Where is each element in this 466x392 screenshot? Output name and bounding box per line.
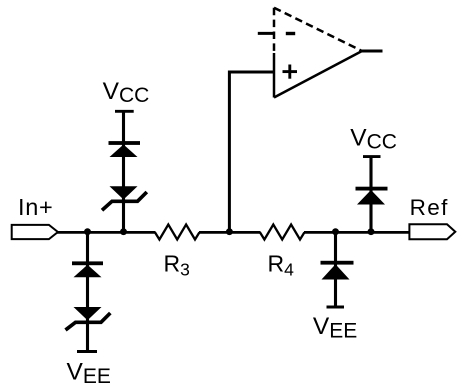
zener Z2 (to VEE left) triangle xyxy=(74,307,102,320)
svg-text:R3: R3 xyxy=(164,251,190,280)
power VCC left bar xyxy=(115,110,134,113)
diode D2 triangle xyxy=(74,265,102,278)
solid lower left edge xyxy=(273,53,276,98)
svg-text:Ref: Ref xyxy=(410,195,449,220)
solid bottom edge xyxy=(274,51,362,98)
node A junction dot xyxy=(84,228,91,235)
resistor R3 xyxy=(155,225,199,240)
svg-text:VCC: VCC xyxy=(103,78,150,107)
wire main horizontal bus right segment xyxy=(304,231,410,234)
wire main horizontal bus middle segment xyxy=(199,231,261,234)
diode D4 triangle xyxy=(322,264,350,279)
power VEE left bar xyxy=(77,350,97,353)
zener Z1 cathode bar with hooks xyxy=(102,192,147,210)
wire op-amp noninverting input xyxy=(229,72,274,232)
terminal Ref xyxy=(409,224,455,239)
op-amp plus sign xyxy=(283,70,298,73)
node B junction dot xyxy=(120,228,127,235)
diode D3 (to VCC right) cathode bar xyxy=(356,187,388,191)
inverting input stub xyxy=(258,32,274,35)
svg-text:In+: In+ xyxy=(18,194,53,220)
wire right VEE branch xyxy=(334,232,337,307)
diode D1 triangle xyxy=(110,145,138,158)
wire left VEE branch xyxy=(86,232,89,351)
op-amp U1 (half phantom/dashed) xyxy=(258,8,383,98)
wire right VCC branch xyxy=(369,157,372,233)
svg-text:VCC: VCC xyxy=(350,124,397,153)
node C junction dot xyxy=(226,228,233,235)
zener Z2 cathode bar with hooks xyxy=(66,313,111,330)
node E junction dot xyxy=(368,228,375,235)
diode D3 triangle xyxy=(357,190,385,205)
dashed upper left edge xyxy=(273,8,276,53)
zener Z1 (left VCC branch) triangle xyxy=(110,186,138,199)
dashed top edge xyxy=(274,8,362,51)
diode D1 (to VCC left) cathode bar xyxy=(109,141,141,145)
svg-text:VEE: VEE xyxy=(313,313,357,343)
output stub xyxy=(362,50,383,53)
terminal In+ xyxy=(12,225,58,239)
power VEE right bar xyxy=(327,306,345,309)
svg-text:R4: R4 xyxy=(268,251,295,280)
wire left VCC branch xyxy=(122,111,125,232)
diode D4 (to VEE right) cathode bar xyxy=(321,261,354,265)
op-amp minus sign xyxy=(286,32,295,35)
diode D2 (In+ to node, upper of lower-left pair) cathode bar xyxy=(72,261,103,265)
wire main horizontal bus left segment xyxy=(57,231,156,234)
resistor R4 xyxy=(260,225,304,240)
power VCC right bar xyxy=(363,155,381,158)
node D junction dot xyxy=(332,228,339,235)
svg-text:VEE: VEE xyxy=(67,359,111,389)
